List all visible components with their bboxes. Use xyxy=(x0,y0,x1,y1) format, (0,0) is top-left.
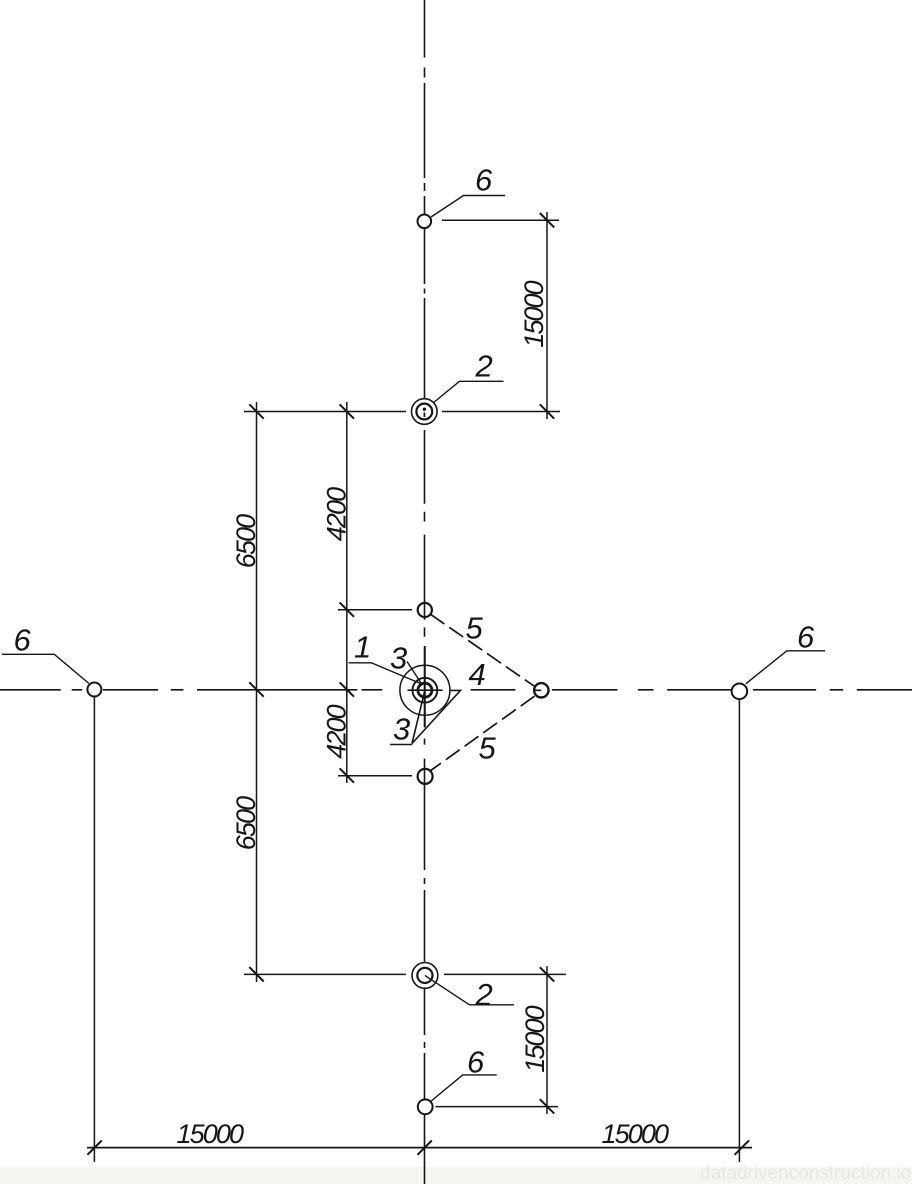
point right of diamond xyxy=(534,683,548,697)
svg-text:6: 6 xyxy=(14,623,32,658)
leader for label 2 lower xyxy=(425,975,514,1004)
dimension line 15000 lower right (x=547) xyxy=(546,966,548,1114)
vertical centerline xyxy=(424,0,426,1184)
svg-text:15000: 15000 xyxy=(519,280,549,347)
station symbol circles xyxy=(400,665,450,715)
extension line top (y=220.3) xyxy=(442,219,559,221)
horizontal centerline xyxy=(0,689,912,692)
svg-text:4: 4 xyxy=(469,657,486,692)
point 6 right xyxy=(732,684,748,700)
svg-text:5: 5 xyxy=(479,731,497,766)
bottom dimension line xyxy=(87,1147,752,1149)
svg-text:6500: 6500 xyxy=(231,796,261,850)
svg-text:15000: 15000 xyxy=(602,1119,669,1149)
svg-text:5: 5 xyxy=(466,610,484,645)
dashed line 5 upper xyxy=(430,614,534,686)
svg-text:4200: 4200 xyxy=(322,704,352,758)
point top of diamond xyxy=(418,603,432,617)
dimension line 6500 (x=256.5) xyxy=(256,402,258,982)
extension line left point 6 down xyxy=(93,697,95,1162)
point bottom of diamond xyxy=(418,769,433,784)
dashed line 5 lower xyxy=(431,696,535,770)
svg-text:6: 6 xyxy=(797,620,815,655)
extension line at point 6 bottom xyxy=(436,1106,559,1108)
leader for label 6 left xyxy=(2,654,89,683)
svg-text:2: 2 xyxy=(475,977,493,1012)
svg-text:1: 1 xyxy=(354,630,371,665)
point 6 bottom xyxy=(418,1099,433,1114)
extension line at point 2 lower, right xyxy=(444,973,566,975)
svg-text:datadrivenconstruction.io: datadrivenconstruction.io xyxy=(700,1163,911,1184)
dimension line 15000 upper right (x=547) xyxy=(546,212,548,419)
extension line diamond top xyxy=(338,609,412,611)
point 2 lower xyxy=(412,963,438,989)
point 6 top xyxy=(418,215,432,229)
extension line at point 2 lower, left xyxy=(244,973,406,975)
extension line at point 2 upper, left xyxy=(244,411,406,413)
station flag triangle xyxy=(390,690,461,744)
watermark band xyxy=(0,1167,912,1184)
svg-text:6500: 6500 xyxy=(231,514,261,568)
svg-text:15000: 15000 xyxy=(177,1119,244,1149)
extension line right point 6 down xyxy=(738,700,740,1163)
leader for label 6 bottom xyxy=(430,1075,497,1102)
svg-text:6: 6 xyxy=(467,1045,485,1080)
leader for label 6 right xyxy=(746,651,825,684)
leader for label 3 top xyxy=(407,662,422,685)
dimension line 4200 (x=346.8) xyxy=(346,402,348,783)
point 6 left xyxy=(87,683,101,697)
leader for label 6 top xyxy=(431,196,505,218)
station crosshair xyxy=(408,646,443,727)
extension line at point 2 upper, right xyxy=(442,411,560,413)
point 2 upper xyxy=(412,399,438,425)
svg-text:15000: 15000 xyxy=(520,1005,550,1072)
tick marks xyxy=(87,213,749,1155)
svg-text:3: 3 xyxy=(393,712,410,747)
svg-text:6: 6 xyxy=(475,163,493,198)
svg-text:2: 2 xyxy=(475,349,493,384)
svg-text:4200: 4200 xyxy=(322,487,352,541)
leader for label 2 upper xyxy=(433,381,504,403)
svg-text:3: 3 xyxy=(390,641,407,676)
extension line diamond bottom xyxy=(338,775,412,777)
leader for label 1 xyxy=(349,663,424,685)
